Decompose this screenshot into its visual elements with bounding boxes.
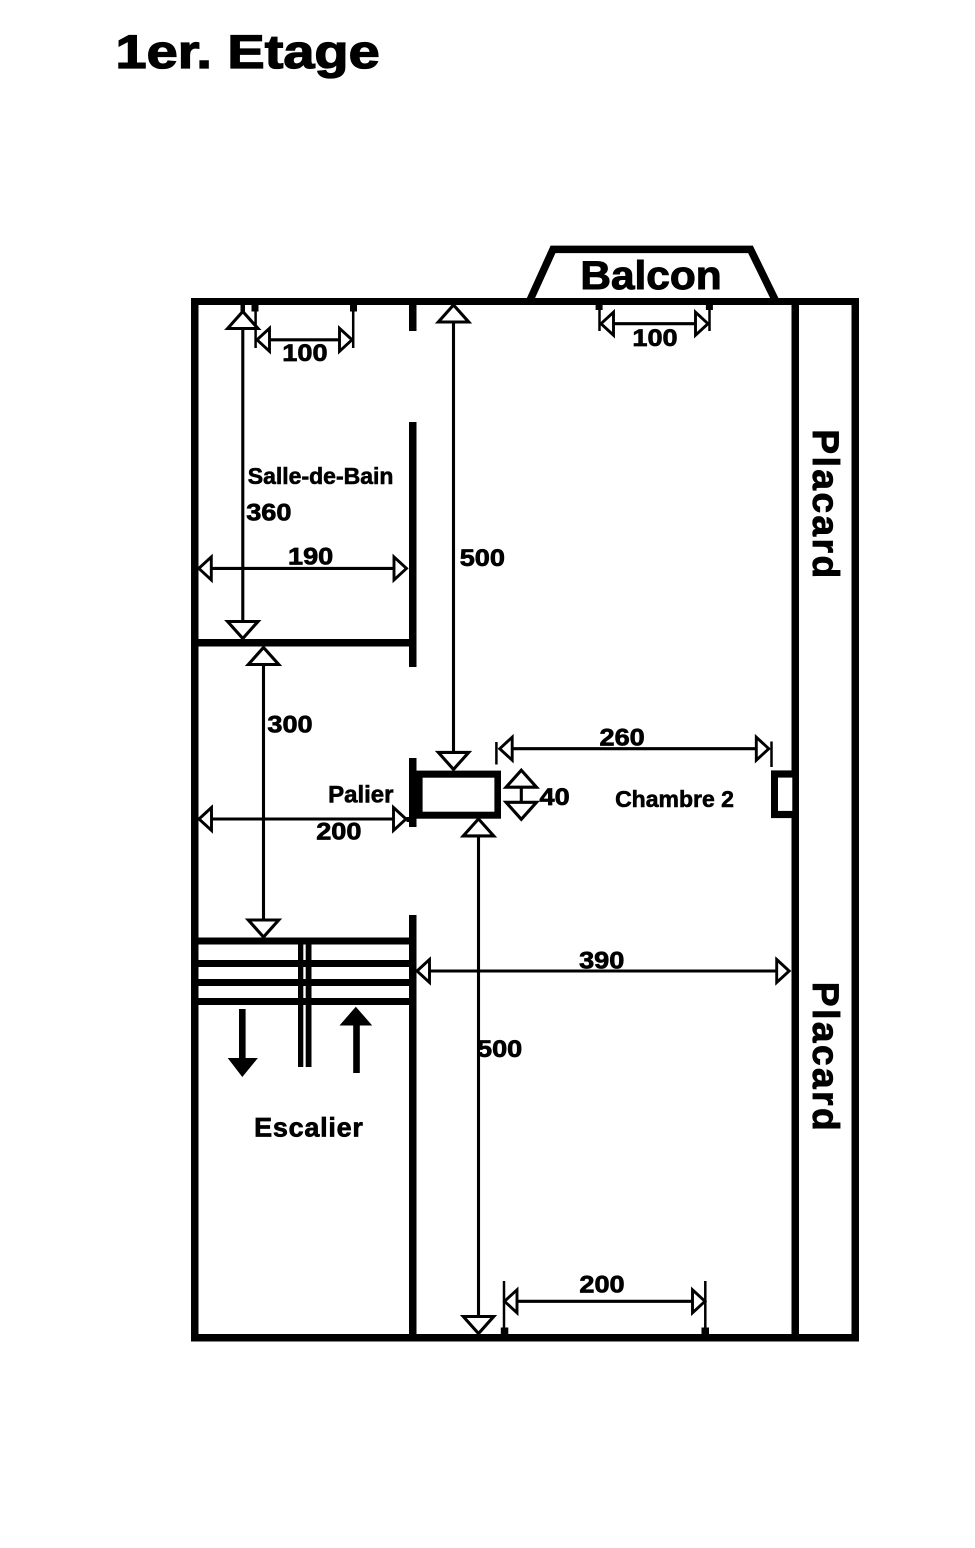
svg-text:Chambre 2: Chambre 2 [615,786,734,812]
svg-text:Placard: Placard [805,429,846,580]
svg-text:300: 300 [267,712,312,738]
svg-text:Escalier: Escalier [254,1113,364,1143]
svg-text:500: 500 [477,1036,522,1062]
svg-text:200: 200 [316,819,361,845]
svg-text:200: 200 [579,1272,624,1298]
svg-text:Salle-de-Bain: Salle-de-Bain [248,463,394,489]
svg-text:500: 500 [460,545,505,571]
svg-text:Palier: Palier [328,782,393,809]
svg-text:40: 40 [540,784,570,810]
svg-text:100: 100 [632,325,677,351]
svg-text:100: 100 [282,340,327,366]
svg-text:360: 360 [246,500,291,526]
svg-text:390: 390 [579,948,624,974]
svg-text:Placard: Placard [805,982,846,1133]
svg-text:260: 260 [599,725,644,751]
svg-text:1er. Etage: 1er. Etage [116,25,380,78]
svg-text:Balcon: Balcon [580,253,721,298]
svg-text:190: 190 [288,544,333,570]
